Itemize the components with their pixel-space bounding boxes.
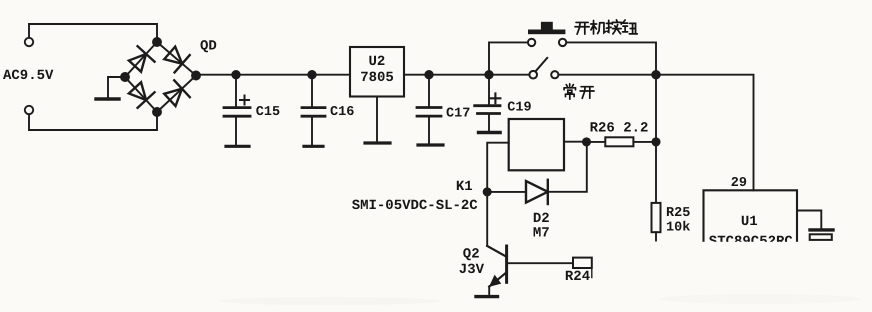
transistor Q2 <box>487 246 506 294</box>
wire <box>108 77 125 98</box>
svg-text:U1: U1 <box>741 214 758 230</box>
svg-text:C19: C19 <box>507 101 531 116</box>
wire rail switch-right to U1 corner <box>558 75 753 191</box>
wire <box>566 42 656 71</box>
ground (C15) <box>226 145 249 148</box>
node D2 left junction <box>484 188 491 195</box>
svg-text:R24: R24 <box>565 269 590 285</box>
capacitor C19 <box>475 75 501 131</box>
push button SW1 contacts <box>528 39 535 46</box>
diode QD top-left <box>126 46 154 74</box>
svg-text:J3V: J3V <box>459 262 485 278</box>
svg-text:QD: QD <box>200 39 217 55</box>
node bridge right <box>192 72 200 80</box>
wire <box>587 141 606 143</box>
wire relay right pin <box>564 141 587 143</box>
svg-text:R26 2.2: R26 2.2 <box>590 120 649 136</box>
diode QD bottom-left <box>126 80 154 108</box>
svg-text:7805: 7805 <box>360 70 394 86</box>
node C16 junction <box>308 71 315 78</box>
svg-text:29: 29 <box>731 176 747 191</box>
diode QD top-right <box>162 44 190 72</box>
ground (C16) <box>304 145 323 148</box>
svg-text:C15: C15 <box>256 105 280 120</box>
wire button branch up/left <box>489 42 528 74</box>
svg-text:M7: M7 <box>533 226 550 242</box>
node bridge top <box>153 38 161 46</box>
IC U1 box (bottom cut off) <box>704 190 798 242</box>
svg-text:K1: K1 <box>456 179 473 195</box>
push button SW1 actuator <box>528 22 565 34</box>
svg-text:C17: C17 <box>446 107 470 122</box>
ground (U2) <box>365 141 390 144</box>
wire <box>29 114 157 130</box>
node R26 right <box>652 138 659 145</box>
capacitor/battery at U1 right <box>810 228 833 231</box>
label 开机按钮 (hand-drawn glyphs) <box>575 20 637 34</box>
node C19 / button junction <box>485 71 492 78</box>
svg-text:R25: R25 <box>666 206 690 221</box>
terminal J1 (AC input top) <box>25 38 33 46</box>
scan cut-off overpaint (U1 bottom) <box>696 242 806 254</box>
label 常开 (hand-drawn glyphs) <box>564 84 594 99</box>
ground (C17) <box>418 143 443 146</box>
wire rail node down to R25 <box>655 75 657 203</box>
wire base <box>507 262 573 264</box>
resistor R25 <box>652 203 661 232</box>
node bridge bottom <box>153 108 161 116</box>
wire U1 right to cap <box>797 211 821 229</box>
node rail/button junction <box>652 71 660 79</box>
svg-text:D2: D2 <box>533 211 550 227</box>
node C17 junction <box>425 71 432 78</box>
capacitor C15 <box>224 75 250 145</box>
bridge rectifier QD edges <box>125 42 196 112</box>
wire <box>633 141 656 143</box>
switch blade <box>536 58 547 71</box>
wire stub <box>591 268 593 278</box>
wire <box>487 191 526 193</box>
ground (C19) <box>479 131 500 135</box>
resistor R26 <box>605 137 633 146</box>
node bridge left <box>121 73 129 81</box>
wire D2 cathode up to R26 left node <box>548 142 587 192</box>
terminal J2 (AC input bottom) <box>25 106 33 114</box>
regulator U2 7805 box <box>350 47 404 97</box>
svg-text:SMI-05VDC-SL-2C: SMI-05VDC-SL-2C <box>352 198 479 214</box>
svg-text:AC9.5V: AC9.5V <box>3 68 54 84</box>
wire <box>655 232 657 240</box>
wire <box>29 24 157 38</box>
switch (常开) contacts <box>529 71 537 79</box>
wire <box>376 97 378 141</box>
node R26 left <box>583 138 590 145</box>
scan artifacts <box>220 294 860 305</box>
capacitor C16 <box>302 75 325 145</box>
wire main rail left <box>196 74 350 76</box>
ground (Q2 emitter) <box>476 295 498 298</box>
ground (bridge) <box>96 97 119 100</box>
svg-text:10k: 10k <box>666 221 690 236</box>
svg-text:C16: C16 <box>330 105 354 120</box>
relay K1 coil box <box>509 119 564 170</box>
capacitor C17 <box>417 75 441 143</box>
diode D2 <box>526 180 548 204</box>
wire rail U2 to switch <box>404 74 529 76</box>
svg-text:Q2: Q2 <box>463 247 480 263</box>
resistor R24 <box>573 258 592 268</box>
diode QD bottom-right <box>162 80 190 108</box>
wire relay left pin down to Q2 <box>487 143 509 246</box>
svg-text:U2: U2 <box>369 54 386 70</box>
node C15 junction <box>232 71 239 78</box>
